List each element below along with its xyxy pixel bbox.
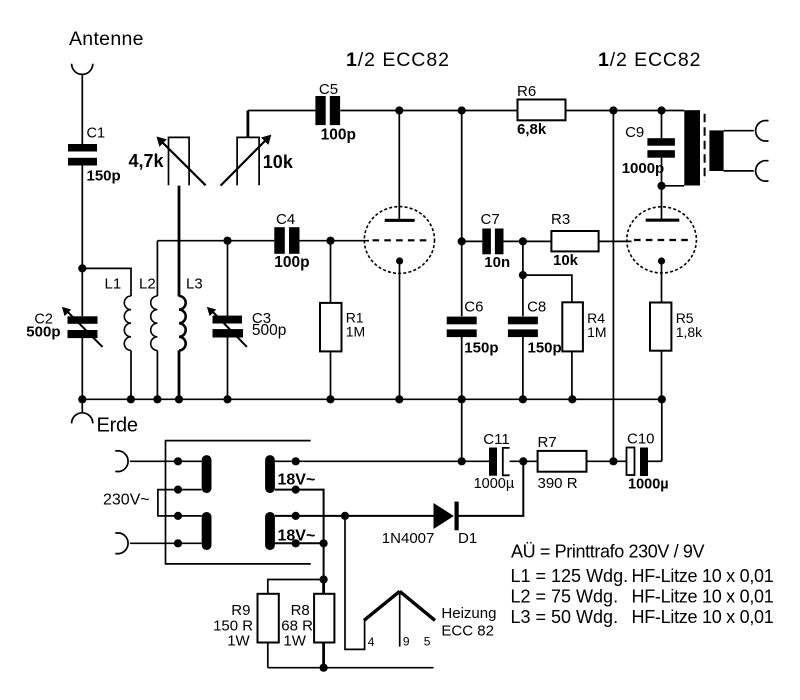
wire L2 top: [156, 241, 158, 296]
primary pin 3: [174, 512, 182, 520]
capacitor C8: [508, 317, 538, 338]
svg-text:4,7k: 4,7k: [129, 151, 165, 171]
wire R9 top branch: [268, 580, 324, 594]
svg-text:18V~: 18V~: [278, 527, 316, 544]
svg-text:R3: R3: [551, 211, 570, 228]
ground symbol Erde arc: [72, 413, 93, 424]
node antenna-L1: [78, 264, 86, 272]
svg-text:150p: 150p: [528, 340, 562, 357]
svg-text:R7: R7: [538, 434, 557, 451]
ground node R5: [658, 395, 666, 403]
node C8-R4: [519, 271, 527, 279]
capacitor C2 (variable): [68, 316, 98, 338]
svg-text:9: 9: [403, 635, 410, 649]
svg-text:100p: 100p: [321, 127, 356, 144]
wire heater bottom: [268, 667, 434, 669]
svg-text:Antenne: Antenne: [69, 28, 144, 50]
transformer box: [166, 441, 311, 564]
wire node to R4: [523, 275, 572, 302]
node bus-C6: [458, 106, 466, 114]
svg-text:R9: R9: [231, 602, 250, 619]
ground node L1: [127, 395, 135, 403]
coil L1: [124, 296, 131, 350]
wire antenna to C1: [81, 74, 83, 144]
svg-text:1N4007: 1N4007: [382, 530, 435, 547]
secondary pin 2: [292, 486, 300, 494]
ground node R4: [568, 395, 576, 403]
power transformer secondary winding 1: [265, 455, 275, 493]
power transformer secondary winding 2: [265, 512, 275, 550]
tube U2 cathode: [658, 257, 665, 264]
capacitor C10 solid plate: [640, 448, 648, 477]
wire R5 to ground bus: [661, 351, 663, 400]
svg-text:R6: R6: [517, 83, 536, 100]
tube U2 1/2 ECC82 envelope: [627, 207, 697, 273]
capacitor C6: [447, 317, 477, 338]
capacitor C3 (variable): [213, 316, 244, 338]
wire C6 to ground bus: [461, 337, 463, 399]
wire R1 top: [330, 241, 332, 303]
phones connector bottom: [756, 161, 769, 181]
svg-text:C10: C10: [627, 431, 655, 448]
wire R1 to ground bus: [330, 351, 332, 399]
svg-text:C9: C9: [625, 124, 644, 141]
ground symbol stub: [81, 399, 83, 413]
primary pin 4: [174, 539, 182, 547]
wire C2 to ground bus: [81, 338, 83, 399]
resistor R8: [314, 594, 334, 643]
wire R4 to ground bus: [571, 351, 573, 399]
ground node L2: [153, 395, 161, 403]
wire plate of U1: [398, 111, 400, 220]
wire primary jumper pin2-pin3: [158, 490, 202, 516]
tube U1 cathode: [396, 257, 403, 264]
wire B+ vertical: [612, 111, 614, 462]
potentiometer 10k: [237, 137, 259, 185]
wire bus to C7 node: [461, 111, 463, 242]
wire C5 to R6: [340, 110, 517, 112]
svg-text:230V~: 230V~: [103, 492, 150, 509]
wire R3 to grid of U2: [599, 240, 632, 242]
wire 10k top stem: [246, 111, 249, 138]
mains connector bottom: [115, 533, 128, 554]
resistor R7: [538, 451, 587, 472]
wire secondary pin2 to pin4: [275, 490, 324, 580]
svg-text:1W: 1W: [227, 633, 250, 650]
coil L2: [151, 296, 158, 350]
tube U1 anode: [385, 219, 415, 222]
tube U1 grid: [373, 239, 429, 241]
wire heater feed: [345, 516, 365, 650]
output transformer AU primary: [684, 110, 700, 185]
capacitor C11 plus plate: [489, 448, 497, 476]
wire C3 to ground bus: [227, 337, 229, 399]
wire C9 top: [661, 111, 663, 139]
wire secondary pin1 to supply rail: [275, 460, 489, 462]
svg-text:390 R: 390 R: [538, 475, 578, 492]
wire pin4: [275, 542, 324, 544]
node bus-B+: [609, 106, 617, 114]
svg-text:100p: 100p: [274, 254, 309, 271]
wire C8 top node: [522, 241, 524, 316]
wire R7 to C10: [587, 460, 627, 462]
svg-text:1000p: 1000p: [622, 160, 665, 177]
svg-text:150p: 150p: [464, 340, 498, 357]
node R8-R9 top: [320, 575, 328, 583]
primary pin 1: [174, 457, 182, 465]
wire C11 to R7: [510, 460, 538, 462]
svg-text:L2 = 75 Wdg.: L2 = 75 Wdg.: [511, 587, 619, 607]
wire R8 top stem: [322, 580, 325, 594]
phones connector top: [756, 121, 769, 141]
node bus-plate U1: [395, 106, 403, 114]
wire R9 bottom: [267, 643, 269, 668]
rail node B+: [609, 457, 617, 465]
ground node C3: [223, 395, 231, 403]
wire mains bottom to primary pin4: [130, 542, 202, 544]
svg-text:C7: C7: [481, 211, 500, 228]
svg-text:C1: C1: [87, 126, 106, 142]
svg-text:L1 = 125 Wdg.: L1 = 125 Wdg.: [511, 566, 629, 586]
capacitor C4: [274, 227, 299, 254]
svg-text:10k: 10k: [263, 152, 294, 172]
power transformer primary winding 1: [202, 455, 212, 493]
svg-text:HF-Litze 10 x 0,01: HF-Litze 10 x 0,01: [632, 607, 774, 627]
wire node A to L1: [82, 268, 131, 296]
svg-text:C6: C6: [464, 298, 483, 315]
wire L2 to ground bus: [156, 351, 158, 400]
resistor R9: [258, 594, 279, 643]
svg-text:D1: D1: [458, 530, 477, 547]
svg-text:1000µ: 1000µ: [474, 476, 515, 492]
svg-text:6,8k: 6,8k: [517, 121, 547, 138]
svg-text:10n: 10n: [484, 254, 510, 271]
wire D1 anode feed: [275, 515, 434, 517]
svg-text:R8: R8: [291, 602, 310, 619]
secondary pin 3: [292, 512, 300, 520]
svg-text:Erde: Erde: [97, 415, 139, 437]
wire C8 to ground bus: [522, 337, 524, 399]
node bus-C9: [657, 106, 665, 114]
antenna symbol: [72, 64, 93, 75]
svg-text:AÜ = Printtrafo 230V / 9V: AÜ = Printtrafo 230V / 9V: [511, 542, 705, 562]
svg-text:5: 5: [424, 635, 431, 649]
power transformer primary winding 2: [202, 512, 212, 550]
heater Heizung ECC 82: [364, 591, 435, 620]
wire C7 to R3: [503, 240, 551, 242]
svg-text:L3 = 50 Wdg.: L3 = 50 Wdg.: [511, 607, 619, 627]
capacitor C1: [68, 144, 97, 166]
node pin4 jumper: [320, 539, 328, 547]
rail node C11-R7: [519, 457, 527, 465]
ground node C8: [519, 395, 527, 403]
svg-text:1W: 1W: [283, 633, 306, 650]
ground node C6: [458, 395, 466, 403]
secondary pin 4: [292, 539, 300, 547]
wire mains top to primary pin1: [130, 460, 202, 462]
wire secondary to phones top: [724, 130, 754, 132]
capacitor C10 open plate: [627, 448, 635, 476]
wire R8 bottom stem: [322, 643, 325, 668]
wire C4 to grid of U1: [300, 240, 370, 242]
wire cathode of U2 to R5: [661, 261, 663, 303]
wire R6 to output transformer: [566, 110, 685, 112]
node C9-plate U2: [657, 182, 665, 190]
resistor R3: [551, 231, 598, 251]
svg-text:HF-Litze 10 x 0,01: HF-Litze 10 x 0,01: [632, 566, 774, 586]
wire secondary to phones bottom: [724, 170, 754, 172]
wire L3 to ground bus: [178, 351, 181, 400]
svg-text:C11: C11: [483, 431, 509, 448]
svg-text:1,8k: 1,8k: [676, 324, 703, 340]
resistor R5: [650, 303, 671, 351]
wire C6 top: [461, 241, 463, 316]
ground node R1: [326, 395, 334, 403]
node tank-C3: [223, 237, 231, 245]
tube U2 grid: [634, 239, 691, 241]
wire C10 right: [648, 460, 662, 462]
ground node L3: [175, 395, 183, 403]
tube U2 anode: [646, 219, 680, 222]
svg-text:1M: 1M: [346, 323, 365, 339]
tube U1 1/2 ECC82 envelope: [364, 207, 434, 274]
svg-text:L2: L2: [139, 276, 156, 293]
svg-text:ECC 82: ECC 82: [441, 623, 494, 640]
svg-text:Heizung: Heizung: [441, 605, 496, 622]
svg-text:500p: 500p: [26, 324, 60, 341]
svg-text:1/2 ECC82: 1/2 ECC82: [598, 49, 701, 71]
svg-text:500p: 500p: [252, 322, 286, 339]
coil L3: [179, 296, 186, 350]
diode D1 1N4007: [434, 503, 454, 529]
resistor R4: [562, 302, 583, 351]
svg-text:1/2 ECC82: 1/2 ECC82: [346, 49, 449, 71]
svg-text:C4: C4: [276, 211, 295, 228]
svg-text:C5: C5: [319, 81, 338, 98]
wire ground bus to C10 right: [661, 399, 663, 461]
capacitor C9: [647, 138, 675, 158]
wire cathode of U1 to ground bus: [399, 261, 401, 399]
wire C1 to C2: [81, 166, 83, 317]
node R8 bottom: [320, 664, 328, 672]
svg-text:1M: 1M: [587, 324, 606, 340]
primary pin 2: [174, 486, 182, 494]
wire C9 bottom to plate node of U2: [661, 158, 663, 220]
output transformer core: [704, 114, 706, 182]
ground bus: [82, 398, 662, 400]
resistor R1: [320, 303, 342, 352]
svg-text:4: 4: [368, 635, 375, 649]
secondary pin 1: [292, 457, 300, 465]
resistor R6: [518, 100, 566, 121]
node heater feed: [341, 512, 349, 520]
wire top bus left to C5: [248, 110, 316, 112]
node grid-R1: [326, 237, 334, 245]
svg-text:L1: L1: [105, 276, 122, 293]
svg-text:18V~: 18V~: [278, 472, 316, 489]
node C6-C7: [458, 237, 466, 245]
wire center tap 9: [399, 592, 401, 647]
svg-text:L3: L3: [186, 276, 203, 293]
wire L1 to ground bus: [130, 351, 132, 400]
wire node to C7: [462, 240, 483, 242]
output transformer secondary: [709, 130, 723, 171]
wire ground bus to supply rail: [461, 399, 463, 461]
wire 4,7k wiper to L3: [178, 186, 181, 297]
capacitor C11 curved plate: [503, 448, 510, 475]
node C7-C8: [519, 237, 527, 245]
wire tank node to C4: [157, 240, 274, 242]
wire D1 cathode to node: [459, 461, 524, 516]
mains connector top: [115, 451, 128, 472]
svg-text:10k: 10k: [553, 252, 579, 269]
svg-text:C8: C8: [527, 298, 546, 315]
svg-text:HF-Litze 10 x 0,01: HF-Litze 10 x 0,01: [632, 587, 774, 607]
wire C3 top: [227, 241, 229, 317]
capacitor C7: [482, 229, 503, 255]
ground node antenna: [78, 395, 86, 403]
ground node cathode U1: [395, 395, 403, 403]
rail node ground link: [458, 457, 466, 465]
wire plate node to output transformer bottom: [662, 185, 685, 187]
capacitor C5: [315, 96, 340, 125]
svg-text:1000µ: 1000µ: [628, 477, 669, 493]
potentiometer 4,7k: [169, 137, 190, 185]
svg-text:150p: 150p: [87, 168, 121, 185]
